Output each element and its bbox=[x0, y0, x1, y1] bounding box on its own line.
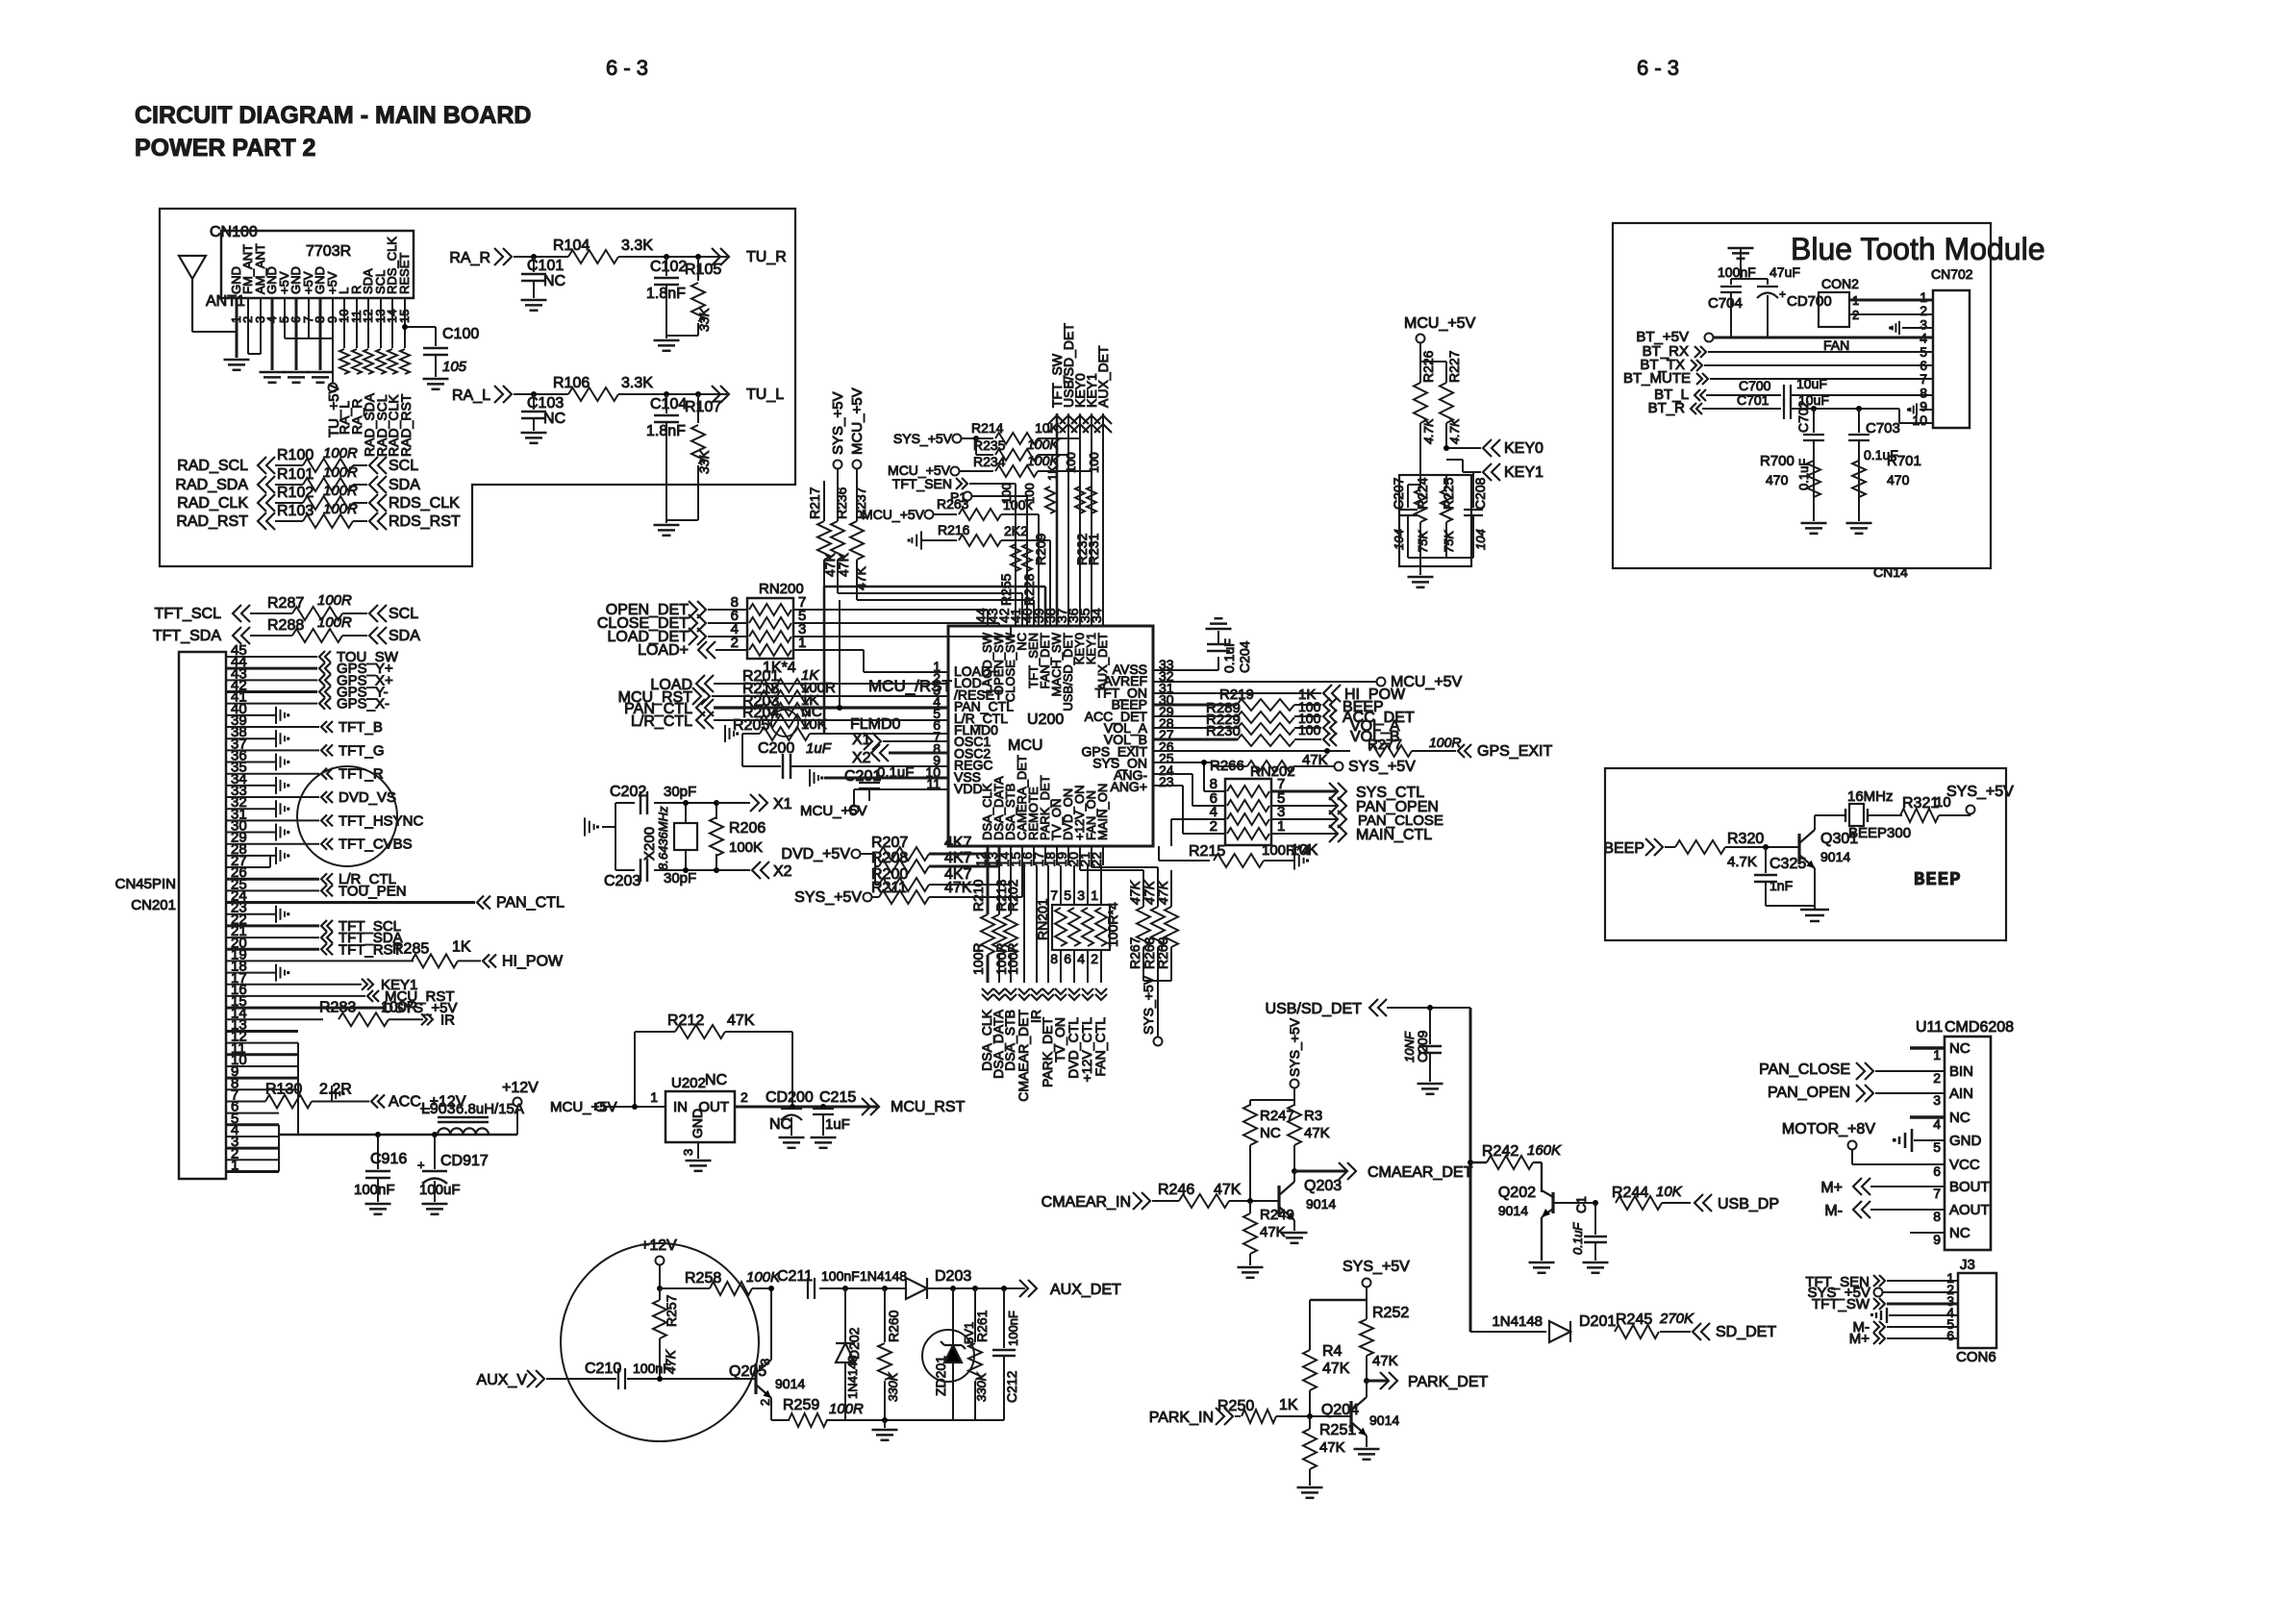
svg-text:100: 100 bbox=[1087, 452, 1101, 473]
node PAN_OPEN bbox=[1271, 805, 1337, 807]
ground CN201 pin 18 bbox=[275, 964, 277, 982]
svg-text:100nF: 100nF bbox=[1006, 1311, 1020, 1346]
node TFT_HSYNC bbox=[321, 814, 327, 826]
svg-text:R3: R3 bbox=[1304, 1108, 1322, 1124]
svg-text:RN202: RN202 bbox=[1250, 763, 1295, 780]
resistor R267 vertical bbox=[1142, 870, 1144, 907]
resistor R225 bbox=[1445, 475, 1447, 488]
svg-text:R224: R224 bbox=[1415, 477, 1430, 510]
svg-text:1N4148: 1N4148 bbox=[1492, 1313, 1543, 1330]
ground R700 bbox=[1813, 519, 1815, 521]
ground CN201 pin 40 bbox=[275, 707, 277, 724]
capacitor C700 bbox=[1783, 385, 1785, 406]
node PARK_DET bottom bbox=[1042, 994, 1054, 1000]
wire CMAEAR_IN bbox=[1152, 1200, 1179, 1202]
svg-text:SDA: SDA bbox=[389, 477, 420, 493]
connector CN100 bbox=[221, 231, 414, 298]
wire Q205 emitter bbox=[770, 1398, 772, 1420]
svg-text:1uF: 1uF bbox=[825, 1116, 850, 1133]
wire X200 frame bbox=[615, 803, 616, 870]
svg-text:9014: 9014 bbox=[1820, 849, 1850, 864]
svg-text:C104: C104 bbox=[650, 396, 687, 412]
svg-text:7: 7 bbox=[1933, 1186, 1941, 1201]
svg-text:47K: 47K bbox=[1319, 1439, 1345, 1456]
node USB_DP bbox=[1694, 1194, 1703, 1212]
svg-text:RN201: RN201 bbox=[1035, 898, 1050, 940]
svg-text:R210: R210 bbox=[970, 879, 986, 912]
svg-text:R267: R267 bbox=[1127, 937, 1142, 969]
svg-text:100R: 100R bbox=[323, 464, 358, 481]
svg-text:30pF: 30pF bbox=[664, 870, 696, 887]
svg-text:CD200: CD200 bbox=[766, 1089, 814, 1106]
svg-text:100nF: 100nF bbox=[821, 1268, 860, 1284]
svg-text:NC: NC bbox=[1949, 1110, 1970, 1126]
resistor R277 bbox=[1369, 745, 1412, 757]
svg-text:RA_R: RA_R bbox=[449, 250, 490, 266]
svg-text:4K7: 4K7 bbox=[944, 835, 972, 851]
svg-text:U200: U200 bbox=[1027, 712, 1064, 728]
ground C209 bbox=[1418, 1083, 1443, 1086]
svg-text:SYS_+5V: SYS_+5V bbox=[893, 431, 953, 446]
svg-text:C210: C210 bbox=[585, 1361, 621, 1377]
resistor R261 vertical bbox=[972, 1286, 978, 1291]
ground R130 bbox=[331, 1086, 333, 1102]
resistor R700 bbox=[1807, 461, 1820, 497]
svg-text:RDS_RST: RDS_RST bbox=[389, 513, 461, 530]
svg-text:SCL: SCL bbox=[389, 458, 418, 474]
svg-text:30pF: 30pF bbox=[664, 784, 696, 800]
svg-text:5: 5 bbox=[1064, 887, 1071, 903]
svg-text:SYS_+5V: SYS_+5V bbox=[794, 889, 862, 906]
resistor R289 bbox=[1237, 712, 1294, 723]
svg-text:NC: NC bbox=[705, 1072, 727, 1088]
svg-text:5: 5 bbox=[1933, 1139, 1941, 1155]
svg-text:R225: R225 bbox=[1441, 477, 1456, 510]
svg-text:CN14: CN14 bbox=[1873, 564, 1908, 580]
svg-text:CMAEAR_DET: CMAEAR_DET bbox=[1368, 1164, 1473, 1181]
svg-text:9014: 9014 bbox=[775, 1376, 805, 1391]
node TOU_PEN bbox=[321, 885, 327, 896]
svg-text:MAIN_ON: MAIN_ON bbox=[1095, 784, 1110, 840]
ground keys bbox=[1408, 576, 1434, 579]
wire USB/SD_DET bbox=[1387, 1007, 1470, 1009]
svg-text:RAD_CLK: RAD_CLK bbox=[177, 495, 248, 512]
svg-text:RAD_RST: RAD_RST bbox=[398, 393, 414, 457]
svg-text:R320: R320 bbox=[1727, 831, 1764, 847]
connector CON2 bbox=[1819, 292, 1849, 327]
node SDA bbox=[369, 476, 378, 493]
svg-text:6: 6 bbox=[1064, 951, 1071, 966]
svg-text:C208: C208 bbox=[1472, 477, 1488, 510]
svg-text:AUX_DET: AUX_DET bbox=[1095, 633, 1110, 690]
ground aux bbox=[882, 1417, 888, 1423]
svg-text:100R*4: 100R*4 bbox=[1105, 902, 1120, 947]
svg-text:PAN_OPEN: PAN_OPEN bbox=[1768, 1085, 1850, 1101]
wire AVSS bbox=[1153, 669, 1218, 671]
svg-text:CMAEAR_IN: CMAEAR_IN bbox=[1042, 1194, 1131, 1211]
resistor RAD_RST vertical bbox=[400, 349, 410, 374]
svg-text:C207: C207 bbox=[1391, 477, 1406, 510]
svg-text:SYS_+5V: SYS_+5V bbox=[1348, 759, 1416, 775]
svg-text:BEEP300: BEEP300 bbox=[1848, 825, 1911, 841]
svg-text:C202: C202 bbox=[610, 784, 646, 800]
wire Q203 top bbox=[1250, 1099, 1294, 1101]
resistor R228 vertical bbox=[1022, 544, 1032, 571]
svg-text:R211: R211 bbox=[871, 880, 907, 896]
svg-text:75K: 75K bbox=[1442, 530, 1456, 553]
wires RN200 outputs bbox=[793, 609, 988, 611]
ground CD200 bbox=[779, 1137, 805, 1139]
resistor R201 bbox=[760, 679, 810, 692]
ground Q301 bbox=[1800, 909, 1829, 912]
ground J3 pin4 bbox=[1881, 1304, 1883, 1327]
svg-text:R234: R234 bbox=[973, 454, 1006, 469]
svg-text:330K: 330K bbox=[974, 1371, 989, 1402]
svg-text:R106: R106 bbox=[553, 375, 590, 391]
wires R267-269 top bbox=[1079, 865, 1081, 870]
node IR bbox=[427, 1013, 433, 1025]
resistor R212 bbox=[634, 1032, 636, 1106]
svg-text:C215: C215 bbox=[819, 1089, 856, 1106]
svg-text:R261: R261 bbox=[974, 1310, 990, 1342]
wire RA_R bbox=[524, 256, 568, 258]
ground X200 bbox=[584, 817, 586, 836]
svg-text:MCU_+5V: MCU_+5V bbox=[849, 387, 866, 455]
node DVD_CTL bottom bbox=[1068, 994, 1080, 1000]
svg-text:R206: R206 bbox=[729, 820, 766, 837]
capacitor C201 bbox=[859, 782, 880, 784]
node RDS_RST bbox=[369, 512, 378, 530]
wire BEEP bbox=[1665, 846, 1675, 848]
svg-text:TFT_SEN: TFT_SEN bbox=[892, 476, 952, 491]
wire TFT_ON to HI_POW bbox=[1153, 692, 1321, 694]
svg-text:Q203: Q203 bbox=[1304, 1178, 1342, 1194]
wires CN100 pins 10-15 down bbox=[343, 298, 345, 348]
svg-text:VDD: VDD bbox=[954, 781, 983, 796]
node KEY1 mid bbox=[1483, 463, 1492, 481]
svg-text:1uF: 1uF bbox=[806, 740, 832, 757]
capacitor C1 bbox=[1593, 1200, 1598, 1206]
svg-text:CD700: CD700 bbox=[1787, 293, 1832, 310]
svg-text:PARK_DET: PARK_DET bbox=[1408, 1374, 1489, 1390]
svg-text:1.8nF: 1.8nF bbox=[646, 286, 686, 302]
wire Q204 emitter bbox=[1366, 1436, 1368, 1447]
svg-text:100K: 100K bbox=[746, 1269, 781, 1286]
node TFT_CVBS bbox=[321, 838, 327, 850]
resistor R102 bbox=[303, 496, 353, 510]
svg-text:R257: R257 bbox=[664, 1294, 679, 1327]
svg-text:GND: GND bbox=[690, 1109, 705, 1138]
wire VSS bbox=[824, 777, 948, 780]
svg-text:9: 9 bbox=[1933, 1232, 1941, 1247]
svg-text:R207: R207 bbox=[871, 835, 908, 851]
resistor R235 bbox=[975, 438, 977, 455]
node GPS_X- bbox=[319, 698, 325, 710]
vertical bus wires above MCU bbox=[1015, 484, 1017, 626]
wire RAD_CLK bbox=[275, 502, 303, 504]
node PAN_CLOSE bbox=[1271, 818, 1337, 820]
ground CN100 pin1 bbox=[224, 359, 250, 362]
resistor R209 vertical bbox=[1045, 487, 1055, 513]
wire R101 out bbox=[353, 484, 367, 486]
svg-text:CIRCUIT DIAGRAM - MAIN BOARD: CIRCUIT DIAGRAM - MAIN BOARD bbox=[135, 102, 531, 129]
wire ANG- row bbox=[1153, 773, 1192, 775]
svg-text:ZD201: ZD201 bbox=[933, 1356, 948, 1396]
svg-text:47K: 47K bbox=[836, 552, 851, 577]
CN100 pin wires bbox=[236, 298, 238, 358]
svg-text:3: 3 bbox=[758, 1359, 772, 1365]
svg-text:2: 2 bbox=[1933, 1070, 1941, 1086]
ground R215 bbox=[1293, 851, 1295, 869]
node FAN_CTL bottom bbox=[1095, 994, 1107, 1000]
wire ACC_DET row bbox=[1153, 715, 1237, 717]
resistor R269 vertical bbox=[1170, 870, 1172, 907]
ground CN702 pin3 bbox=[1902, 327, 1933, 329]
svg-text:1.8nF: 1.8nF bbox=[646, 423, 686, 439]
U202 outline bbox=[665, 1091, 735, 1142]
svg-text:1K: 1K bbox=[452, 938, 471, 955]
svg-text:USB/SD_DET: USB/SD_DET bbox=[1266, 1001, 1363, 1017]
svg-text:4.7K: 4.7K bbox=[1447, 417, 1462, 444]
svg-text:105: 105 bbox=[442, 359, 467, 375]
svg-text:1K: 1K bbox=[1279, 1397, 1298, 1413]
svg-text:BOUT: BOUT bbox=[1949, 1179, 1990, 1195]
svg-text:C211: C211 bbox=[777, 1268, 813, 1285]
svg-text:47K: 47K bbox=[944, 880, 972, 896]
ground CN100 pin6 bbox=[284, 371, 310, 374]
svg-text:SCL: SCL bbox=[389, 606, 418, 622]
node +12V_CTL bottom bbox=[1082, 994, 1093, 1000]
resistor network RN200 bbox=[747, 598, 793, 659]
ground C916 bbox=[365, 1203, 391, 1206]
svg-text:100K: 100K bbox=[729, 839, 763, 856]
svg-text:75K: 75K bbox=[1416, 530, 1430, 553]
svg-text:CMD6208: CMD6208 bbox=[1945, 1019, 2014, 1036]
svg-text:9014: 9014 bbox=[1369, 1412, 1399, 1428]
svg-text:RAD_SCL: RAD_SCL bbox=[177, 458, 248, 474]
resistor R251 vertical bbox=[1309, 1416, 1311, 1429]
capacitor C704 bbox=[1730, 279, 1732, 285]
svg-text:10: 10 bbox=[1912, 412, 1927, 428]
ground Q203 bbox=[1282, 1232, 1308, 1235]
wire U202 out bbox=[735, 1106, 877, 1109]
transistor Q205 bbox=[754, 1363, 757, 1394]
wire RAD_RST bbox=[275, 520, 303, 522]
svg-text:100nF: 100nF bbox=[633, 1361, 671, 1376]
svg-text:100nF: 100nF bbox=[354, 1182, 395, 1198]
node KEY0 bbox=[1446, 447, 1481, 449]
svg-text:R217: R217 bbox=[807, 487, 822, 519]
resistor R210 vertical bbox=[987, 854, 990, 914]
svg-text:4K7: 4K7 bbox=[944, 850, 972, 866]
node DSA_CLK bottom bbox=[982, 994, 993, 1000]
resistor R285 bbox=[412, 954, 458, 967]
svg-text:R226: R226 bbox=[1420, 350, 1436, 383]
transistor Q301 bbox=[1797, 834, 1800, 864]
svg-text:104: 104 bbox=[1392, 529, 1406, 550]
capacitor C702 bbox=[1803, 434, 1824, 436]
wire U11 pin1 bbox=[1910, 1046, 1945, 1049]
wire to C100 bbox=[405, 326, 436, 328]
svg-text:R246: R246 bbox=[1158, 1182, 1194, 1198]
ground U202 bbox=[686, 1160, 712, 1162]
transistor Q202 bbox=[1551, 1192, 1554, 1213]
svg-text:47K: 47K bbox=[1155, 880, 1170, 905]
svg-text:330K: 330K bbox=[886, 1371, 900, 1402]
svg-text:PARK_IN: PARK_IN bbox=[1149, 1410, 1214, 1426]
node SCL bbox=[369, 457, 378, 474]
wire VOL_B row bbox=[1153, 738, 1237, 741]
svg-text:C212: C212 bbox=[1004, 1370, 1019, 1403]
resistor R232 vertical bbox=[1075, 487, 1085, 513]
svg-text:8.6436MHz: 8.6436MHz bbox=[656, 806, 670, 870]
svg-text:100nF: 100nF bbox=[1718, 264, 1756, 280]
svg-text:100: 100 bbox=[1064, 452, 1078, 473]
ground C215 bbox=[811, 1137, 837, 1139]
wire TFT_SCL bbox=[250, 612, 292, 614]
svg-text:C704: C704 bbox=[1708, 295, 1743, 312]
node L/R_CTL bbox=[321, 873, 327, 885]
terminal MCU_+5V AVREF bbox=[1377, 678, 1386, 687]
resistor R107 vertical bbox=[695, 391, 701, 397]
svg-text:KEY0: KEY0 bbox=[1504, 440, 1544, 457]
node TFT_RST bbox=[321, 943, 327, 955]
resistor R266 bbox=[1247, 761, 1293, 772]
ground R249 bbox=[1238, 1266, 1264, 1269]
wire VOL_A row bbox=[1153, 727, 1237, 729]
svg-text:X2: X2 bbox=[852, 750, 871, 766]
wire PAN_CTL row bbox=[714, 706, 948, 709]
svg-text:470: 470 bbox=[1887, 472, 1910, 487]
resistor R218 bbox=[760, 690, 810, 704]
resistor RAD_SCL vertical bbox=[376, 349, 386, 374]
svg-text:1: 1 bbox=[1277, 818, 1285, 835]
svg-text:DVD_VS: DVD_VS bbox=[339, 789, 396, 806]
resistor R242 bbox=[1468, 1160, 1473, 1165]
svg-text:R321: R321 bbox=[1902, 795, 1939, 812]
svg-text:L903: L903 bbox=[421, 1101, 456, 1117]
svg-text:TFT_G: TFT_G bbox=[339, 742, 385, 759]
ground CN201 pin 36 bbox=[275, 754, 277, 771]
svg-text:RAD_SDA: RAD_SDA bbox=[175, 477, 248, 493]
node TFT_R bbox=[321, 768, 327, 780]
capacitor C203 bbox=[640, 859, 642, 882]
svg-text:C201: C201 bbox=[844, 768, 881, 785]
svg-text:M+: M+ bbox=[1820, 1180, 1843, 1196]
resistor R259 bbox=[771, 1419, 790, 1421]
wire VDD bbox=[854, 788, 948, 790]
resistor R230 bbox=[1237, 735, 1294, 746]
resistor R249 vertical bbox=[1249, 1201, 1251, 1213]
svg-text:BEEP: BEEP bbox=[1603, 840, 1644, 857]
wires MCU bottom pins down bbox=[987, 846, 989, 865]
wire caps top bbox=[1731, 278, 1768, 280]
svg-text:M+: M+ bbox=[1849, 1331, 1870, 1347]
IC U11 CMD6208 outline bbox=[1945, 1037, 1991, 1250]
svg-text:MCU_+5V: MCU_+5V bbox=[862, 507, 925, 522]
ground Q204 bbox=[1354, 1448, 1380, 1451]
node MCU_RST left bbox=[367, 990, 373, 1002]
svg-text:R244: R244 bbox=[1612, 1185, 1648, 1201]
svg-text:Blue Tooth Module: Blue Tooth Module bbox=[1791, 232, 2045, 266]
capacitor C204 bbox=[1207, 643, 1230, 646]
svg-text:6: 6 bbox=[1946, 1328, 1954, 1343]
node ACC_DET right bbox=[1323, 710, 1330, 723]
resistor R4 vertical bbox=[1303, 1350, 1317, 1390]
wire aux top bbox=[657, 1286, 663, 1291]
ground CN702 pin9 bbox=[1920, 409, 1933, 411]
svg-text:R4: R4 bbox=[1322, 1343, 1343, 1360]
node X1 crystal bbox=[683, 800, 689, 806]
resistor R234 bbox=[995, 465, 1038, 477]
MCU U200 outline bbox=[948, 626, 1153, 846]
capacitor C103 (NC) bbox=[531, 391, 537, 397]
antenna ANT1 bbox=[191, 279, 193, 332]
svg-text:RESET: RESET bbox=[397, 253, 412, 294]
resistor R321 bbox=[1900, 809, 1939, 822]
svg-text:DVD_+5V: DVD_+5V bbox=[781, 846, 850, 862]
svg-text:R208: R208 bbox=[871, 850, 908, 866]
wire LOAD row bbox=[714, 683, 948, 685]
wire MCU_RST row bbox=[712, 695, 948, 697]
svg-text:R230: R230 bbox=[1206, 723, 1241, 739]
capacitor CD917 (polarized) bbox=[434, 1135, 436, 1169]
svg-text:+12V: +12V bbox=[502, 1080, 539, 1096]
svg-text:R252: R252 bbox=[1372, 1305, 1409, 1321]
node RDS_CLK bbox=[369, 494, 378, 512]
node MCU_RST right bbox=[870, 1098, 879, 1115]
svg-text:+: + bbox=[417, 1158, 425, 1172]
svg-text:100R: 100R bbox=[1429, 735, 1461, 750]
node TFT_SCL bbox=[321, 920, 327, 932]
connector J3 outline bbox=[1958, 1273, 1996, 1348]
capacitor C211 bbox=[807, 1278, 809, 1299]
svg-text:AIN: AIN bbox=[1949, 1086, 1973, 1102]
resistor R250 bbox=[1242, 1410, 1276, 1423]
wire CN201 bundle to +12V rail bbox=[297, 1089, 299, 1135]
svg-text:TU_R: TU_R bbox=[746, 249, 787, 265]
svg-text:4: 4 bbox=[1077, 951, 1085, 966]
svg-text:47K: 47K bbox=[1127, 880, 1142, 905]
svg-text:TFT_SDA: TFT_SDA bbox=[153, 628, 221, 644]
svg-text:FLMD0: FLMD0 bbox=[850, 716, 901, 733]
wire R102 out bbox=[353, 502, 367, 504]
svg-text:FAN: FAN bbox=[1823, 337, 1849, 353]
capacitor C212 bbox=[1001, 1286, 1007, 1291]
svg-text:6 - 3: 6 - 3 bbox=[606, 56, 648, 80]
wire BT_+5V FAN bbox=[1714, 337, 1933, 339]
svg-text:TFT_SCL: TFT_SCL bbox=[339, 918, 401, 935]
svg-text:NC: NC bbox=[769, 1116, 791, 1133]
wire Q203 emitter bbox=[1293, 1220, 1295, 1231]
node SYS_CTL bbox=[1271, 790, 1337, 793]
resistor R246 bbox=[1179, 1194, 1229, 1208]
node AUX_DET bbox=[1028, 1280, 1037, 1297]
crystal BEEP300 bbox=[1845, 809, 1846, 822]
wire C702 bbox=[1811, 406, 1817, 412]
terminal MCU_+5V VDD bbox=[850, 806, 859, 814]
node SDA bbox=[369, 627, 378, 644]
node MAIN_CTL bbox=[1271, 833, 1337, 835]
wire CD700 down bbox=[1767, 295, 1769, 337]
resistor R216 bbox=[920, 531, 922, 549]
wire AUX_V bbox=[546, 1378, 616, 1380]
resistor R206 vertical bbox=[715, 803, 717, 819]
wire U11 pin4 bbox=[1910, 1115, 1945, 1118]
node TFT_SDA bbox=[321, 932, 327, 943]
resistor R236 vertical bbox=[831, 521, 844, 560]
ground C104 bbox=[654, 524, 680, 527]
